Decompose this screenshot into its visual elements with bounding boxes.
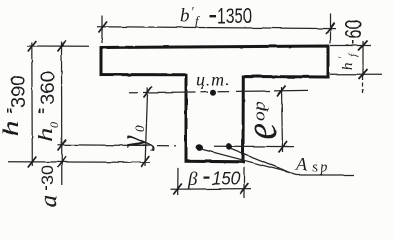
leader line from left rebar dot: [201, 149, 290, 173]
dimension h0 line: [61, 42, 63, 185]
svg-text:sp: sp: [312, 160, 330, 176]
svg-text:30: 30: [40, 165, 57, 185]
svg-text:h: h: [0, 120, 23, 136]
dimension h'f line: [362, 41, 364, 76]
dimension b'f extension line right: [330, 14, 332, 44]
centroid dashed line: [129, 90, 308, 92]
svg-text:A: A: [295, 154, 308, 174]
svg-text:150: 150: [212, 169, 240, 189]
dashed drop of h'f line to centroid level: [362, 76, 364, 94]
tick e_op top: [277, 86, 286, 97]
svg-text:0: 0: [47, 122, 61, 128]
svg-text:360: 360: [37, 71, 59, 105]
svg-text:h: h: [340, 63, 356, 71]
dimension h'f extension line bottom: [330, 73, 382, 75]
dimension b line: [171, 188, 252, 191]
dimension h'f extension line top: [330, 45, 371, 47]
dimension b'f extension line left: [101, 16, 103, 44]
tick h top: [28, 41, 37, 52]
dimension y0 line: [145, 88, 148, 167]
tick b'f right: [326, 23, 335, 35]
T-beam outline: [101, 46, 328, 162]
dimension b extension line left: [177, 168, 179, 195]
label y0 (rotated): [111, 125, 155, 151]
tick b'f left: [99, 22, 108, 33]
label b'f = 1350: [180, 4, 252, 28]
rebar dot right: [226, 143, 233, 150]
top extension line for h and h0: [27, 45, 89, 47]
svg-text:b: b: [180, 6, 190, 27]
leader line from right rebar dot: [230, 148, 290, 173]
label h = 390 (rotated): [0, 75, 30, 137]
dimension h line: [31, 42, 34, 166]
label Asp: [295, 154, 330, 176]
tick e_op bottom: [279, 142, 288, 153]
tick h'f top: [359, 41, 368, 51]
tick y0 top: [144, 87, 153, 98]
svg-text:β: β: [187, 169, 198, 190]
reinforcement level line left (from h0 line toward web, dash-dot): [58, 144, 151, 147]
label b = 150: [187, 169, 240, 191]
leader underline for Asp: [290, 173, 354, 176]
label h0 = 360 (rotated): [35, 71, 61, 142]
dimension b extension line right: [243, 167, 245, 198]
svg-text:e: e: [236, 123, 285, 140]
tick b right: [240, 183, 249, 194]
svg-text:1350: 1350: [217, 4, 252, 28]
svg-text:′: ′: [191, 4, 194, 18]
label h'f = 60 (rotated): [337, 20, 367, 71]
tick y0 bottom: [141, 156, 150, 167]
rebar dot left: [196, 144, 203, 151]
svg-text:60: 60: [342, 20, 367, 39]
reinforcement level line right (through dots to e_op line): [214, 145, 294, 147]
tick h'f bottom: [359, 69, 368, 79]
svg-text:a: a: [34, 195, 62, 208]
svg-text:390: 390: [9, 75, 30, 108]
dimension b'f line: [97, 27, 336, 29]
tick b left: [173, 184, 182, 195]
label e_op (rotated): [236, 102, 285, 140]
tick h0 at rebar level: [58, 140, 67, 151]
tick a bottom: [58, 157, 67, 168]
svg-text:0: 0: [132, 125, 147, 132]
svg-text:ц.т.: ц.т.: [196, 70, 230, 90]
tick h bottom: [28, 157, 37, 168]
tick h0 top: [58, 41, 67, 52]
bottom extension line: [8, 161, 150, 164]
centroid dot: [210, 90, 216, 96]
svg-text:op: op: [250, 102, 269, 121]
dimension e_op line: [282, 87, 283, 152]
svg-text:h: h: [35, 128, 57, 142]
label a = 30 (rotated): [34, 165, 62, 208]
